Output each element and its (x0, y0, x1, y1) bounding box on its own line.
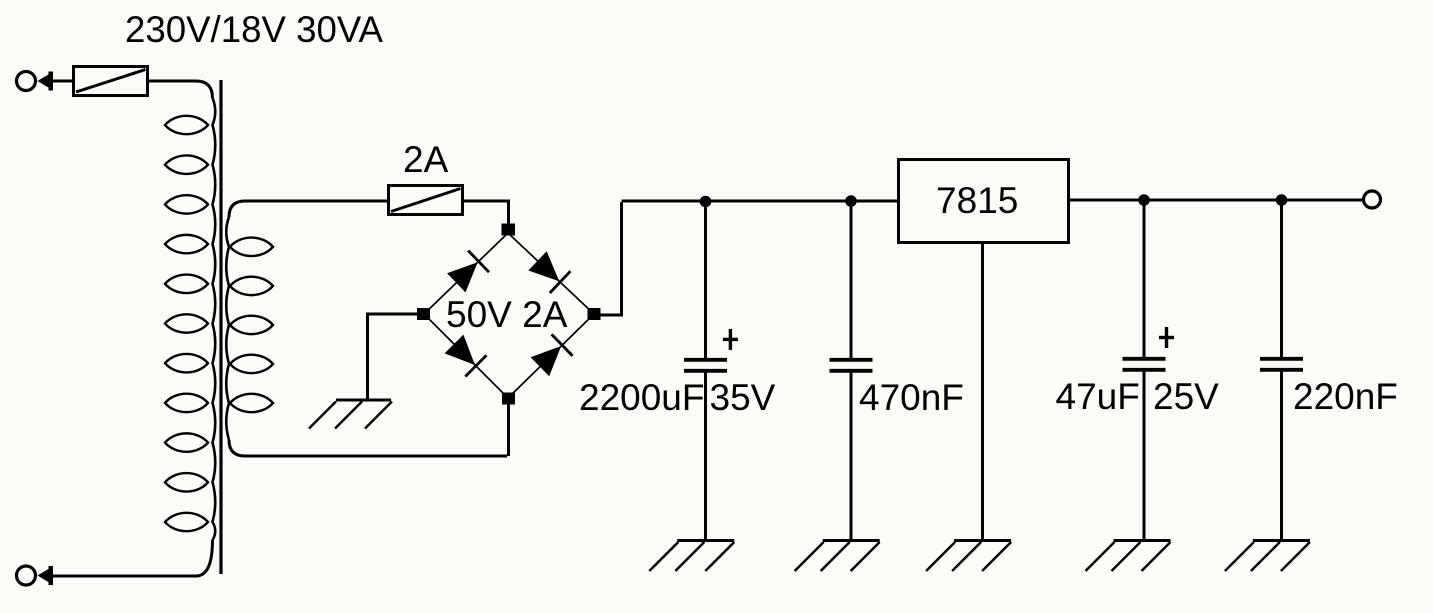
junction C1 (700, 196, 712, 208)
svg-text:47uF: 47uF (1056, 376, 1140, 417)
svg-text:230V/18V 30VA: 230V/18V 30VA (125, 9, 383, 50)
diode D3 (left-bottom arm) (446, 336, 487, 377)
wire U1 ground lead (981, 244, 984, 539)
node bridge AC2 (bottom) (502, 393, 515, 405)
wire bridge AC2 down (507, 403, 510, 456)
node bridge + (right) (588, 308, 601, 320)
wire J1 to F1 (53, 80, 72, 83)
ground (C1) (649, 541, 734, 572)
output terminal J3 +15V (1364, 191, 1381, 208)
ground (C2) (795, 541, 880, 572)
fuse F1 (mains) (74, 67, 148, 96)
capacitor C3 polarity + (1159, 327, 1174, 348)
capacitor C3 47uF 25V (1123, 202, 1166, 539)
ground (U1) (926, 541, 1011, 572)
svg-text:220nF: 220nF (1293, 376, 1398, 417)
svg-text:35V: 35V (710, 377, 776, 418)
capacitor C1 2200uF 35V (684, 203, 727, 539)
wire primary to J2 (53, 540, 213, 576)
junction C4 (1276, 194, 1288, 206)
wire F1 to transformer primary (149, 81, 213, 98)
V+ rail wire (left of 7815) (622, 200, 898, 203)
node bridge AC1 (top) (502, 224, 516, 236)
diode D1 (left-top arm) (448, 251, 489, 292)
ground (C3) (1086, 541, 1171, 572)
input terminal J2 (neutral) (17, 566, 54, 585)
junction C2 (845, 195, 857, 207)
wire F2 to bridge AC1 (464, 201, 509, 225)
bridge rectifier B1 outline (424, 233, 594, 398)
wire bridge + up to V+ rail (600, 202, 622, 315)
capacitor C1 polarity + (723, 329, 738, 350)
diode D4 (bottom-right arm) (532, 334, 573, 375)
transformer T1 core (219, 80, 222, 574)
transformer T1 secondary winding (226, 217, 273, 440)
svg-text:2A: 2A (403, 139, 449, 180)
svg-text:7815: 7815 (936, 180, 1018, 221)
ground (C4) (1225, 541, 1310, 572)
wire secondary to F2 (229, 201, 387, 217)
junction C3 (1138, 194, 1150, 206)
wire bridge - to ground (368, 314, 418, 399)
capacitor C2 470nF (830, 203, 873, 539)
svg-text:25V: 25V (1153, 376, 1219, 417)
ground (bridge negative) (309, 400, 392, 429)
svg-text:2200uF: 2200uF (579, 377, 705, 418)
capacitor C4 220nF (1260, 202, 1303, 539)
input terminal J1 (line) (17, 72, 54, 91)
diode D2 (top-right arm) (529, 252, 570, 293)
wire secondary to bridge AC2 (229, 440, 507, 456)
voltage regulator U1 7815 (899, 160, 1069, 243)
transformer T1 primary winding (165, 98, 215, 540)
svg-text:50V 2A: 50V 2A (446, 294, 568, 335)
svg-text:470nF: 470nF (859, 377, 964, 418)
V+ rail wire (right of 7815) (1070, 199, 1363, 202)
node bridge - (left) (417, 308, 430, 320)
fuse F2 2A (389, 186, 463, 215)
